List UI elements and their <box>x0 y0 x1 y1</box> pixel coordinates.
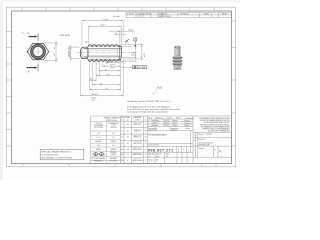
middle bottom row texts <box>148 153 169 162</box>
hex centerline vertical <box>37 34 39 69</box>
nose rib junction <box>87 47 89 59</box>
section arrow A top <box>21 31 38 40</box>
svg-text:Gewindeeinsatz's: Gewindeeinsatz's <box>149 134 168 137</box>
svg-text:DOC2009DIG BC: DOC2009DIG BC <box>42 155 59 157</box>
svg-text:1.2: 1.2 <box>145 154 147 156</box>
svg-text:Erstellung: Erstellung <box>180 12 188 15</box>
svg-text:0.8: 0.8 <box>145 149 147 151</box>
svg-text:12.04.05: 12.04.05 <box>171 130 177 132</box>
right diameter dimension 2 <box>123 43 144 60</box>
svg-text:±0.3: ±0.3 <box>126 137 129 139</box>
svg-text:±0.5: ±0.5 <box>112 145 115 147</box>
rib band fill bottom <box>88 59 121 61</box>
svg-text:18 ±0.2: 18 ±0.2 <box>92 94 100 96</box>
svg-text:PFLICHTIG: PFLICHTIG <box>110 160 117 162</box>
svg-text:2:1: 2:1 <box>21 32 23 34</box>
photo rib torus 1 <box>172 56 182 60</box>
surface finish symbol <box>125 39 130 42</box>
photo top cap ring <box>174 46 180 49</box>
right section company text <box>199 117 231 133</box>
svg-text:max: max <box>92 100 95 102</box>
svg-text:1/1: 1/1 <box>166 156 168 158</box>
hex width dimension <box>45 41 58 63</box>
svg-text:Name: Name <box>176 118 180 120</box>
middle section texts <box>148 117 190 132</box>
svg-text:⌀7.8: ⌀7.8 <box>143 53 146 57</box>
svg-text:DOKUMENT.: DOKUMENT. <box>109 158 118 160</box>
svg-text:max 7: max 7 <box>101 25 106 27</box>
svg-text:04.06: 04.06 <box>222 14 227 16</box>
svg-text:WINKEL: WINKEL <box>96 149 102 151</box>
svg-text:DIN EN ISO 898: DIN EN ISO 898 <box>199 145 210 147</box>
svg-text:Oberfläche / surface DIN ISO: Oberfläche / surface DIN ISO 2081 Fe Zn … <box>127 100 171 103</box>
hex bore circle <box>33 46 44 57</box>
hex chamfer circle <box>31 44 46 59</box>
svg-text:DIN ISO 2768-mK: DIN ISO 2768-mK <box>106 120 117 122</box>
svg-text:(x): (x) <box>107 74 110 76</box>
dimension 41 +-0.05 <box>121 60 125 62</box>
svg-text:SPECIAL CHARACTERISTICS: SPECIAL CHARACTERISTICS <box>42 151 72 154</box>
svg-text:v: v <box>221 156 222 158</box>
dim row 6 <box>93 83 121 85</box>
left tolerance cell texts extra lines <box>133 121 143 160</box>
svg-text:12.04.05: 12.04.05 <box>163 120 169 122</box>
svg-text:0.2: 0.2 <box>145 130 147 132</box>
svg-text:0.5: 0.5 <box>115 33 118 35</box>
svg-text:0.3: 0.3 <box>145 137 147 139</box>
rib band fill top <box>88 45 121 47</box>
left diameter dimension <box>69 45 79 61</box>
paper edge shading <box>0 0 3 180</box>
svg-text:1000: 1000 <box>121 154 124 156</box>
svg-text:DIN 6784: DIN 6784 <box>110 127 116 129</box>
safety symbols <box>93 152 105 156</box>
svg-text:12.04.06: 12.04.06 <box>143 14 150 16</box>
svg-text:A-A (2:1): A-A (2:1) <box>60 34 70 37</box>
left tolerance cell texts <box>121 116 147 162</box>
GD&T position frame <box>121 66 132 68</box>
svg-text:120: 120 <box>121 143 123 145</box>
dim row 4 <box>96 74 121 76</box>
overall length dimension (top row 1) <box>82 19 123 44</box>
svg-text:0.5: 0.5 <box>145 143 147 145</box>
extension lines <box>80 60 123 97</box>
part centerline <box>76 52 139 54</box>
svg-text:±0.2: ±0.2 <box>112 133 115 135</box>
svg-text:h ±0.1: h ±0.1 <box>103 19 108 21</box>
bore start vertical <box>87 49 89 57</box>
svg-text:2.8 g: 2.8 g <box>156 156 160 158</box>
svg-text:⌀ (5)#8960; (5): ⌀ (5)#8960; (5) <box>69 46 71 57</box>
svg-text:a: a <box>148 120 149 122</box>
svg-text:h11: h11 <box>54 53 56 56</box>
svg-text:CuZn 37 Mn: CuZn 37 Mn <box>148 130 156 132</box>
right diameter dimension 1 <box>123 45 138 60</box>
svg-text:±0.1: ±0.1 <box>126 120 129 122</box>
revision strip text <box>113 12 227 18</box>
svg-text:400: 400 <box>121 149 123 151</box>
svg-text:A: A <box>28 70 30 74</box>
svg-text:11.01.06: 11.01.06 <box>163 125 169 127</box>
svg-text:1: 1 <box>137 14 138 16</box>
svg-text:max 1: max 1 <box>128 30 133 32</box>
dim row 1 <box>106 61 121 63</box>
svg-text:968.937.271: 968.937.271 <box>148 148 174 153</box>
svg-text:ISO 2768-m: ISO 2768-m <box>134 158 141 160</box>
svg-text:±0.8: ±0.8 <box>126 149 129 151</box>
dim row 7 <box>90 88 121 90</box>
svg-text:±1.2: ±1.2 <box>126 154 129 156</box>
svg-text:EDV: EDV <box>187 126 190 128</box>
photo rib torus 3 <box>172 62 182 66</box>
svg-text:12.04.05: 12.04.05 <box>206 134 212 136</box>
part right end face <box>120 46 122 59</box>
svg-text:04.05: 04.05 <box>204 14 209 16</box>
svg-text:0.1: 0.1 <box>145 120 147 122</box>
left tolerance columns <box>123 116 125 164</box>
right section <box>192 116 194 164</box>
nose inner wall <box>82 49 88 58</box>
svg-text:0.5...3: 0.5...3 <box>97 137 101 139</box>
border ticks left <box>6 32 11 147</box>
border ticks bottom <box>23 164 216 167</box>
rib band hatch bottom <box>89 59 121 62</box>
dim row 2 <box>103 65 121 68</box>
dim row 3 <box>99 68 120 71</box>
svg-text:0.5 BIS 3: 0.5 BIS 3 <box>135 120 141 122</box>
dim row 5 <box>90 79 97 81</box>
rib gap strokes top <box>92 45 118 47</box>
revision table strip <box>126 13 232 18</box>
section arrow A bottom <box>27 64 38 74</box>
svg-text:MITTEL DIN: MITTEL DIN <box>134 152 141 154</box>
svg-text:DIN ISO 2768: DIN ISO 2768 <box>94 127 103 129</box>
svg-text:MIT SYMB. GEKENNZ.: MIT SYMB. GEKENNZ. <box>91 158 106 160</box>
svg-text:⌀5.2: ⌀5.2 <box>131 52 134 56</box>
svg-text:ACCORDING TO U.ELT'S SGLE: ACCORDING TO U.ELT'S SGLE <box>42 157 73 160</box>
hex outline <box>27 43 48 59</box>
svg-text:3...6: 3...6 <box>112 137 115 139</box>
outer border <box>6 7 235 167</box>
svg-text:b: b <box>178 151 179 153</box>
inner frame <box>11 11 231 164</box>
svg-text:2000: 2000 <box>121 160 124 162</box>
svg-text:RUNDUNGEN U.: RUNDUNGEN U. <box>133 135 143 137</box>
rib gap strokes bottom <box>92 59 118 61</box>
bore lines <box>84 48 121 50</box>
svg-text:±0.1: ±0.1 <box>126 124 129 126</box>
top-right small dimensions <box>109 27 135 46</box>
svg-text:Zeichnung: Zeichnung <box>187 118 194 120</box>
svg-text:±0.1: ±0.1 <box>97 133 100 135</box>
rib band hatch top <box>89 44 121 47</box>
svg-text:(z): (z) <box>100 83 103 85</box>
middle section rows <box>148 118 194 120</box>
svg-text:(n): (n) <box>111 66 114 68</box>
svg-text:0.1: 0.1 <box>145 124 147 126</box>
general surface roughness symbol (faint) <box>152 87 163 95</box>
photo neck cylinder <box>174 47 180 56</box>
svg-text:Rz 25: Rz 25 <box>157 87 162 89</box>
photo base <box>174 65 182 69</box>
svg-text:1: 1 <box>188 150 189 152</box>
svg-text:b: b <box>148 123 149 125</box>
border ticks top <box>22 7 214 11</box>
svg-text:5:1: 5:1 <box>148 156 150 158</box>
svg-text:(s): (s) <box>105 88 108 90</box>
hex centerline horizontal <box>26 51 51 53</box>
svg-text:2: 2 <box>139 14 140 16</box>
svg-text:±0.2: ±0.2 <box>126 130 129 132</box>
svg-text:A: A <box>27 31 29 35</box>
body length dimension (top row 2) <box>88 25 121 44</box>
svg-text:DIN ISO 16016: DIN ISO 16016 <box>158 16 171 18</box>
border ticks right <box>232 21 236 146</box>
svg-text:DOK-PFL.: DOK-PFL. <box>110 154 117 156</box>
svg-text:no changing of strength after: no changing of strength after die castin… <box>127 111 168 114</box>
svg-text:a 12.04: a 12.04 <box>127 14 133 16</box>
ribbed body bottom scallops <box>88 59 121 62</box>
hex ring shading <box>32 45 45 58</box>
svg-text:±0.3: ±0.3 <box>97 145 100 147</box>
svg-text:TL-WT: TL-WT <box>111 125 115 127</box>
dim row 8 overall <box>80 94 123 102</box>
svg-text:P: P <box>219 149 221 153</box>
svg-text:±0.5: ±0.5 <box>126 143 129 145</box>
datum A flag <box>134 38 137 47</box>
svg-text:ISO 8015: ISO 8015 <box>96 123 102 125</box>
svg-text:3: 3 <box>141 14 142 16</box>
svg-text:03.08.05: 03.08.05 <box>163 123 169 125</box>
svg-text:0.5: 0.5 <box>121 120 123 122</box>
part nose outline <box>80 47 87 59</box>
hex mid circle <box>32 45 45 58</box>
svg-text:41 41 ±0.05#177;0.05: 41 41 ±0.05#177;0.05 <box>125 61 138 63</box>
svg-text:SICHERH.: SICHERH. <box>110 152 117 154</box>
photo rib torus 2 <box>172 59 182 63</box>
ribbed body top scallops <box>88 45 121 48</box>
